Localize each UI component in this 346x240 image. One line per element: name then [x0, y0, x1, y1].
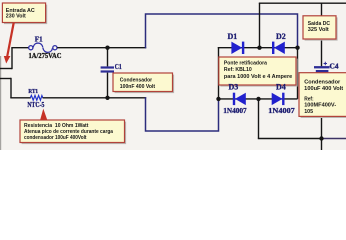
junction dot bottom C1 tap	[105, 96, 109, 100]
svg-text:Condensador: Condensador	[120, 77, 153, 83]
svg-text:230 Volt: 230 Volt	[6, 14, 26, 20]
wire: lower input riser	[10, 78, 12, 98]
red arrow to AC input	[4, 23, 15, 64]
wire: C4 bottom lead	[321, 73, 323, 151]
red arrow to thermistor	[40, 109, 47, 120]
junction dot negative rail	[319, 136, 323, 140]
junction dot bridge bottom center	[256, 97, 260, 101]
svg-text:D3: D3	[229, 83, 239, 92]
left image edge line	[0, 56, 1, 150]
svg-text:100uF 400 Volt: 100uF 400 Volt	[304, 86, 343, 92]
wire: navy AC loop up-right-down	[146, 14, 298, 48]
svg-text:C4: C4	[330, 63, 340, 70]
svg-text:325 Volt: 325 Volt	[308, 27, 329, 33]
wire: negative rail navy segment to right edge	[322, 138, 346, 140]
wire: top AC wire to fuse	[11, 47, 28, 49]
svg-text:D1: D1	[228, 32, 238, 41]
diode D3	[233, 93, 246, 105]
svg-text:RT1: RT1	[28, 88, 38, 95]
svg-text:C1: C1	[115, 64, 123, 71]
svg-text:1N4007: 1N4007	[268, 106, 295, 115]
callout box Ponte shadow	[220, 59, 297, 87]
svg-text:condensador 100uF 400Volt: condensador 100uF 400Volt	[24, 135, 87, 141]
capacitor C4 plus sign	[324, 62, 327, 65]
wire: navy lower loop down-right-up	[146, 97, 219, 131]
svg-text:1A/275VAC: 1A/275VAC	[29, 52, 62, 60]
svg-text:NTC-5: NTC-5	[27, 101, 44, 109]
diode D2	[272, 42, 285, 54]
callout box Condensador 100nF	[113, 73, 173, 92]
svg-text:100MF400V-: 100MF400V-	[304, 103, 336, 109]
svg-text:F1: F1	[35, 36, 43, 44]
svg-text:Ref: KBL10: Ref: KBL10	[224, 67, 252, 73]
callout box Ponte retificadora	[219, 57, 296, 85]
svg-text:Ponte retificadora: Ponte retificadora	[224, 60, 268, 66]
junction dot bridge bottom left	[216, 97, 220, 101]
diode D1	[231, 42, 244, 54]
wire: negative riser down	[258, 99, 260, 139]
wire: bridge top wire	[218, 47, 298, 49]
svg-text:D2: D2	[276, 32, 286, 41]
callout box Entrada AC shadow	[4, 5, 47, 25]
junction dot bridge top center	[257, 46, 261, 50]
wire: bridge right vertical	[297, 48, 299, 99]
thermistor RT1 zigzag	[30, 95, 43, 100]
svg-text:D4: D4	[276, 83, 286, 92]
svg-text:1N4007: 1N4007	[223, 106, 247, 115]
fuse F1	[29, 43, 57, 52]
wire: lower wire to thermistor	[10, 97, 31, 99]
wire: lower AC input stub from left edge	[0, 78, 11, 80]
wire: upper input riser	[11, 48, 13, 69]
svg-text:100nF 400 Volt: 100nF 400 Volt	[120, 84, 155, 90]
callout box Resistencia shadow	[22, 122, 127, 145]
svg-text:para 1000 Volt e 4 Ampere: para 1000 Volt e 4 Ampere	[224, 74, 292, 80]
svg-text:Ref:: Ref:	[304, 96, 314, 102]
capacitor C1 lead bottom	[107, 73, 109, 99]
capacitor C1 lead top	[107, 47, 109, 66]
wire: top AC wire from fuse to corner	[57, 47, 146, 49]
wire: bridge bottom wire	[218, 98, 298, 100]
wire: lower AC wire from thermistor to corner	[43, 97, 147, 99]
capacitor C1 plates	[101, 66, 114, 72]
callout box Entrada AC	[2, 3, 45, 23]
junction dot top C1 tap	[105, 46, 109, 50]
wire: C4 top feed	[321, 3, 323, 66]
wire: bridge left vertical	[218, 47, 220, 99]
callout box Saida DC shadow	[305, 17, 338, 40]
svg-text:105: 105	[304, 109, 313, 115]
capacitor C4 plates	[314, 66, 330, 72]
svg-text:Condensador: Condensador	[304, 79, 341, 85]
wire: bottom negative rail	[258, 138, 322, 140]
wire: top positive rail	[259, 2, 346, 4]
junction dot bridge top right	[295, 46, 299, 50]
diode D4	[272, 93, 285, 105]
callout box Condensador 100uF shadow	[301, 74, 346, 118]
callout box Saida DC	[303, 16, 336, 39]
wire: upper AC input stub from left edge	[0, 68, 12, 70]
wire: positive riser to top rail	[259, 3, 261, 48]
callout box Condensador 100uF	[299, 73, 346, 117]
callout box Condensador 100nF shadow	[115, 75, 175, 94]
callout box Resistencia	[20, 120, 125, 143]
